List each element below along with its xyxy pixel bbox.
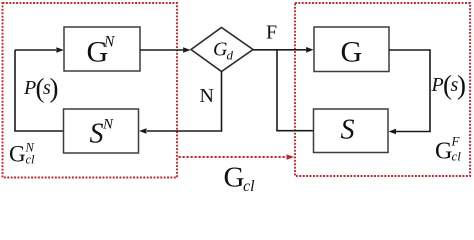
decision diamond G_d (191, 28, 253, 72)
svg-text:): ) (457, 70, 466, 100)
wire: diamond N output down (221, 71, 223, 131)
block S^N (64, 109, 139, 153)
svg-text:G: G (9, 142, 26, 167)
wire: right feedback vertical P(s) (429, 49, 431, 131)
wire: left feedback vertical P(s) (14, 50, 16, 131)
svg-text:G: G (341, 36, 363, 69)
svg-text:S: S (341, 115, 355, 146)
svg-text:cl: cl (452, 149, 462, 164)
red dashed arrow G_cl (left box to right box) (179, 156, 288, 158)
svg-text:N: N (102, 117, 114, 133)
wire: S^N output to feedback (14, 130, 63, 132)
svg-text:F: F (451, 134, 461, 149)
full closed-loop boundary (right red dashed box) (295, 3, 470, 176)
block G^N (64, 27, 140, 71)
svg-text:cl: cl (26, 153, 36, 167)
block S (314, 109, 389, 153)
wire: G^N output to decision diamond (140, 49, 183, 51)
svg-text:d: d (227, 48, 234, 63)
svg-text:F: F (266, 22, 277, 44)
svg-text:G: G (435, 139, 452, 165)
svg-text:cl: cl (243, 178, 255, 194)
svg-text:): ) (50, 73, 59, 103)
svg-text:G: G (224, 162, 245, 194)
wire: N-branch into S^N (147, 130, 222, 132)
wire: diamond F output to G (253, 49, 306, 51)
nominal closed-loop boundary (left red dashed box) (3, 3, 178, 178)
wire: feedback into S right edge (396, 131, 431, 133)
svg-text:N: N (103, 34, 116, 51)
wire: G output right (389, 49, 430, 51)
svg-text:P: P (431, 74, 444, 96)
block G (314, 27, 389, 72)
svg-text:N: N (200, 85, 214, 107)
svg-text:S: S (90, 119, 104, 150)
wire: F-branch junction down (276, 50, 278, 131)
wire: F-branch into S left edge (276, 130, 313, 132)
svg-text:P: P (23, 77, 36, 99)
wire: input arrow into G^N (15, 49, 56, 51)
